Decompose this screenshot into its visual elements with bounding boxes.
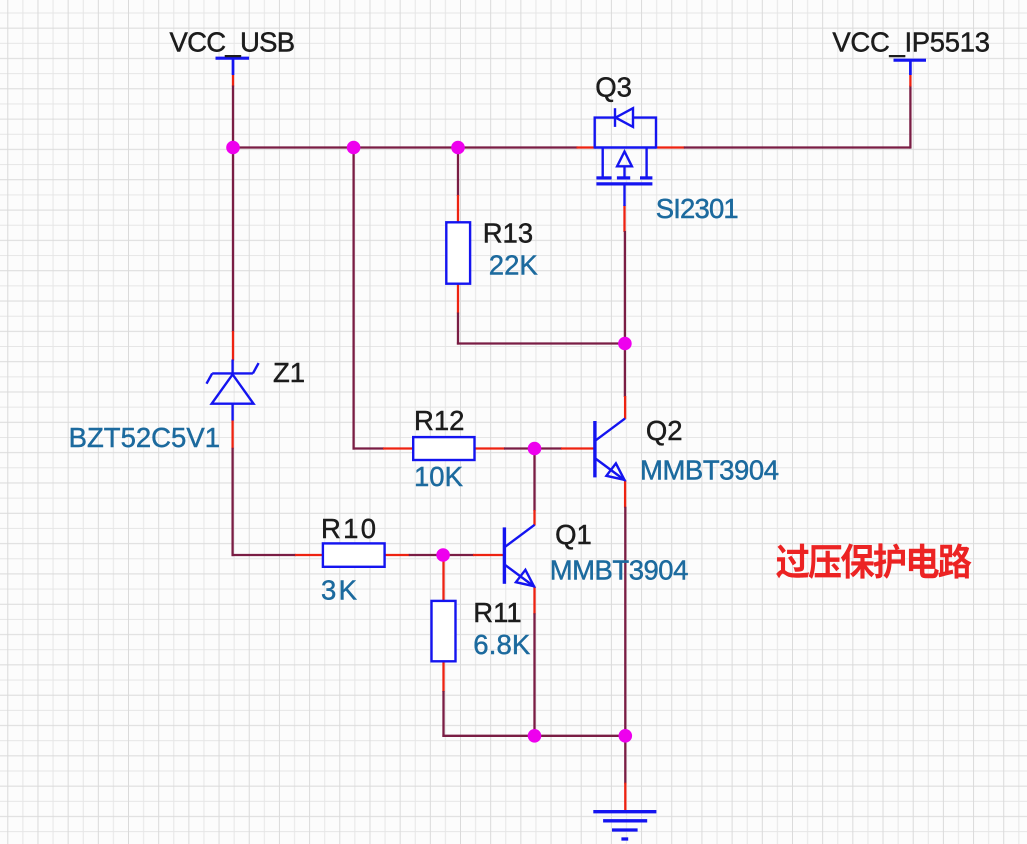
wire R11 down to rail <box>442 691 444 737</box>
svg-text:22K: 22K <box>489 250 539 281</box>
junction top rail C <box>451 141 465 155</box>
annotation text 过压保护电路 <box>776 543 971 578</box>
ground <box>593 812 656 839</box>
junction Q1 base node <box>436 548 450 562</box>
pin R12 right <box>474 447 505 449</box>
wire gate down to junction <box>624 231 626 344</box>
wire rail to R12 corner <box>352 148 354 450</box>
svg-text:MMBT3904: MMBT3904 <box>550 555 689 586</box>
pin R11 top <box>442 555 444 601</box>
wire Q1 emitter down <box>533 613 535 737</box>
svg-text:SI2301: SI2301 <box>656 193 739 224</box>
wire rail to ground <box>624 736 626 784</box>
pin Q1 emitter <box>533 587 535 615</box>
wire junction down to Q1 collector <box>533 449 535 512</box>
svg-text:Q2: Q2 <box>646 415 683 446</box>
wire rail to R13 <box>457 148 459 197</box>
wire R12 to junction <box>504 447 535 449</box>
svg-text:Z1: Z1 <box>273 357 305 388</box>
wire VCC_USB down to rail <box>232 86 234 149</box>
wire R13 to corner <box>457 313 459 345</box>
pin Q3 drain <box>656 146 685 148</box>
zener diode Z1 <box>207 360 259 421</box>
pin Z1 anode <box>231 420 233 449</box>
pin R10 right <box>384 554 409 556</box>
power flag VCC_USB <box>216 58 250 75</box>
pin Q2 emitter <box>624 480 626 508</box>
pin R11 bottom <box>442 661 444 692</box>
svg-text:10K: 10K <box>414 461 464 492</box>
resistor R11 <box>432 601 456 661</box>
pin Q2 base <box>561 447 594 449</box>
wire bottom rail <box>442 735 625 737</box>
junction bottom rail B <box>619 729 633 743</box>
svg-text:Q1: Q1 <box>555 519 592 550</box>
junction top rail B <box>347 141 361 155</box>
wire R10 to junction <box>409 554 443 556</box>
wire VCC_IP5513 riser <box>909 86 911 149</box>
pin Q2 collector <box>624 396 626 419</box>
svg-text:R12: R12 <box>414 405 464 436</box>
wire Q2 emitter down <box>624 507 626 737</box>
junction gate node <box>618 337 632 351</box>
pin Q1 base <box>473 554 503 556</box>
transistor Q3 SI2301 <box>595 108 656 206</box>
pin R13 bottom <box>457 283 459 313</box>
transistor Q1 MMBT3904 <box>504 525 534 587</box>
junction top rail A <box>226 141 240 155</box>
wire corner to gate junction <box>457 342 625 344</box>
pin Z1 cathode <box>232 331 234 361</box>
pin R10 left <box>295 554 324 556</box>
junction bottom rail A <box>528 729 542 743</box>
svg-text:6.8K: 6.8K <box>473 629 531 660</box>
pin Q3 gate <box>623 205 625 232</box>
pin R13 top <box>457 195 459 223</box>
pin wire VCC_USB stem <box>232 75 234 87</box>
wire junction down to Q2 collector <box>624 344 626 398</box>
svg-text:R13: R13 <box>483 218 533 249</box>
wire junction to Q1 base <box>443 554 474 556</box>
wire top rail left segment <box>232 146 578 148</box>
junction Q2 base node <box>528 442 542 456</box>
pin wire VCC_IP5513 stem <box>909 75 911 87</box>
wire corner to R10 <box>232 554 297 556</box>
wire left branch down <box>232 148 234 333</box>
pin Q3 source <box>577 146 596 148</box>
svg-text:VCC_IP5513: VCC_IP5513 <box>832 26 990 57</box>
svg-text:3K: 3K <box>321 575 358 606</box>
wire junction to Q2 base <box>535 447 563 449</box>
transistor Q2 MMBT3904 <box>595 418 625 480</box>
pin ground <box>624 783 626 812</box>
svg-text:Q3: Q3 <box>595 72 632 103</box>
power flag VCC_IP5513 <box>894 60 927 75</box>
svg-text:R11: R11 <box>473 597 521 628</box>
svg-text:BZT52C5V1: BZT52C5V1 <box>69 422 220 453</box>
wire top rail right segment <box>684 146 911 148</box>
wire corner to R12 <box>353 447 385 449</box>
svg-text:VCC_USB: VCC_USB <box>170 26 296 57</box>
svg-text:R10: R10 <box>321 513 376 544</box>
pin Q1 collector <box>533 510 535 525</box>
wire Z1 to corner <box>231 448 233 556</box>
pin R12 left <box>383 447 414 449</box>
svg-text:MMBT3904: MMBT3904 <box>640 455 779 486</box>
resistor R10 <box>323 543 385 566</box>
resistor R13 <box>446 222 470 283</box>
resistor R12 <box>413 437 474 460</box>
